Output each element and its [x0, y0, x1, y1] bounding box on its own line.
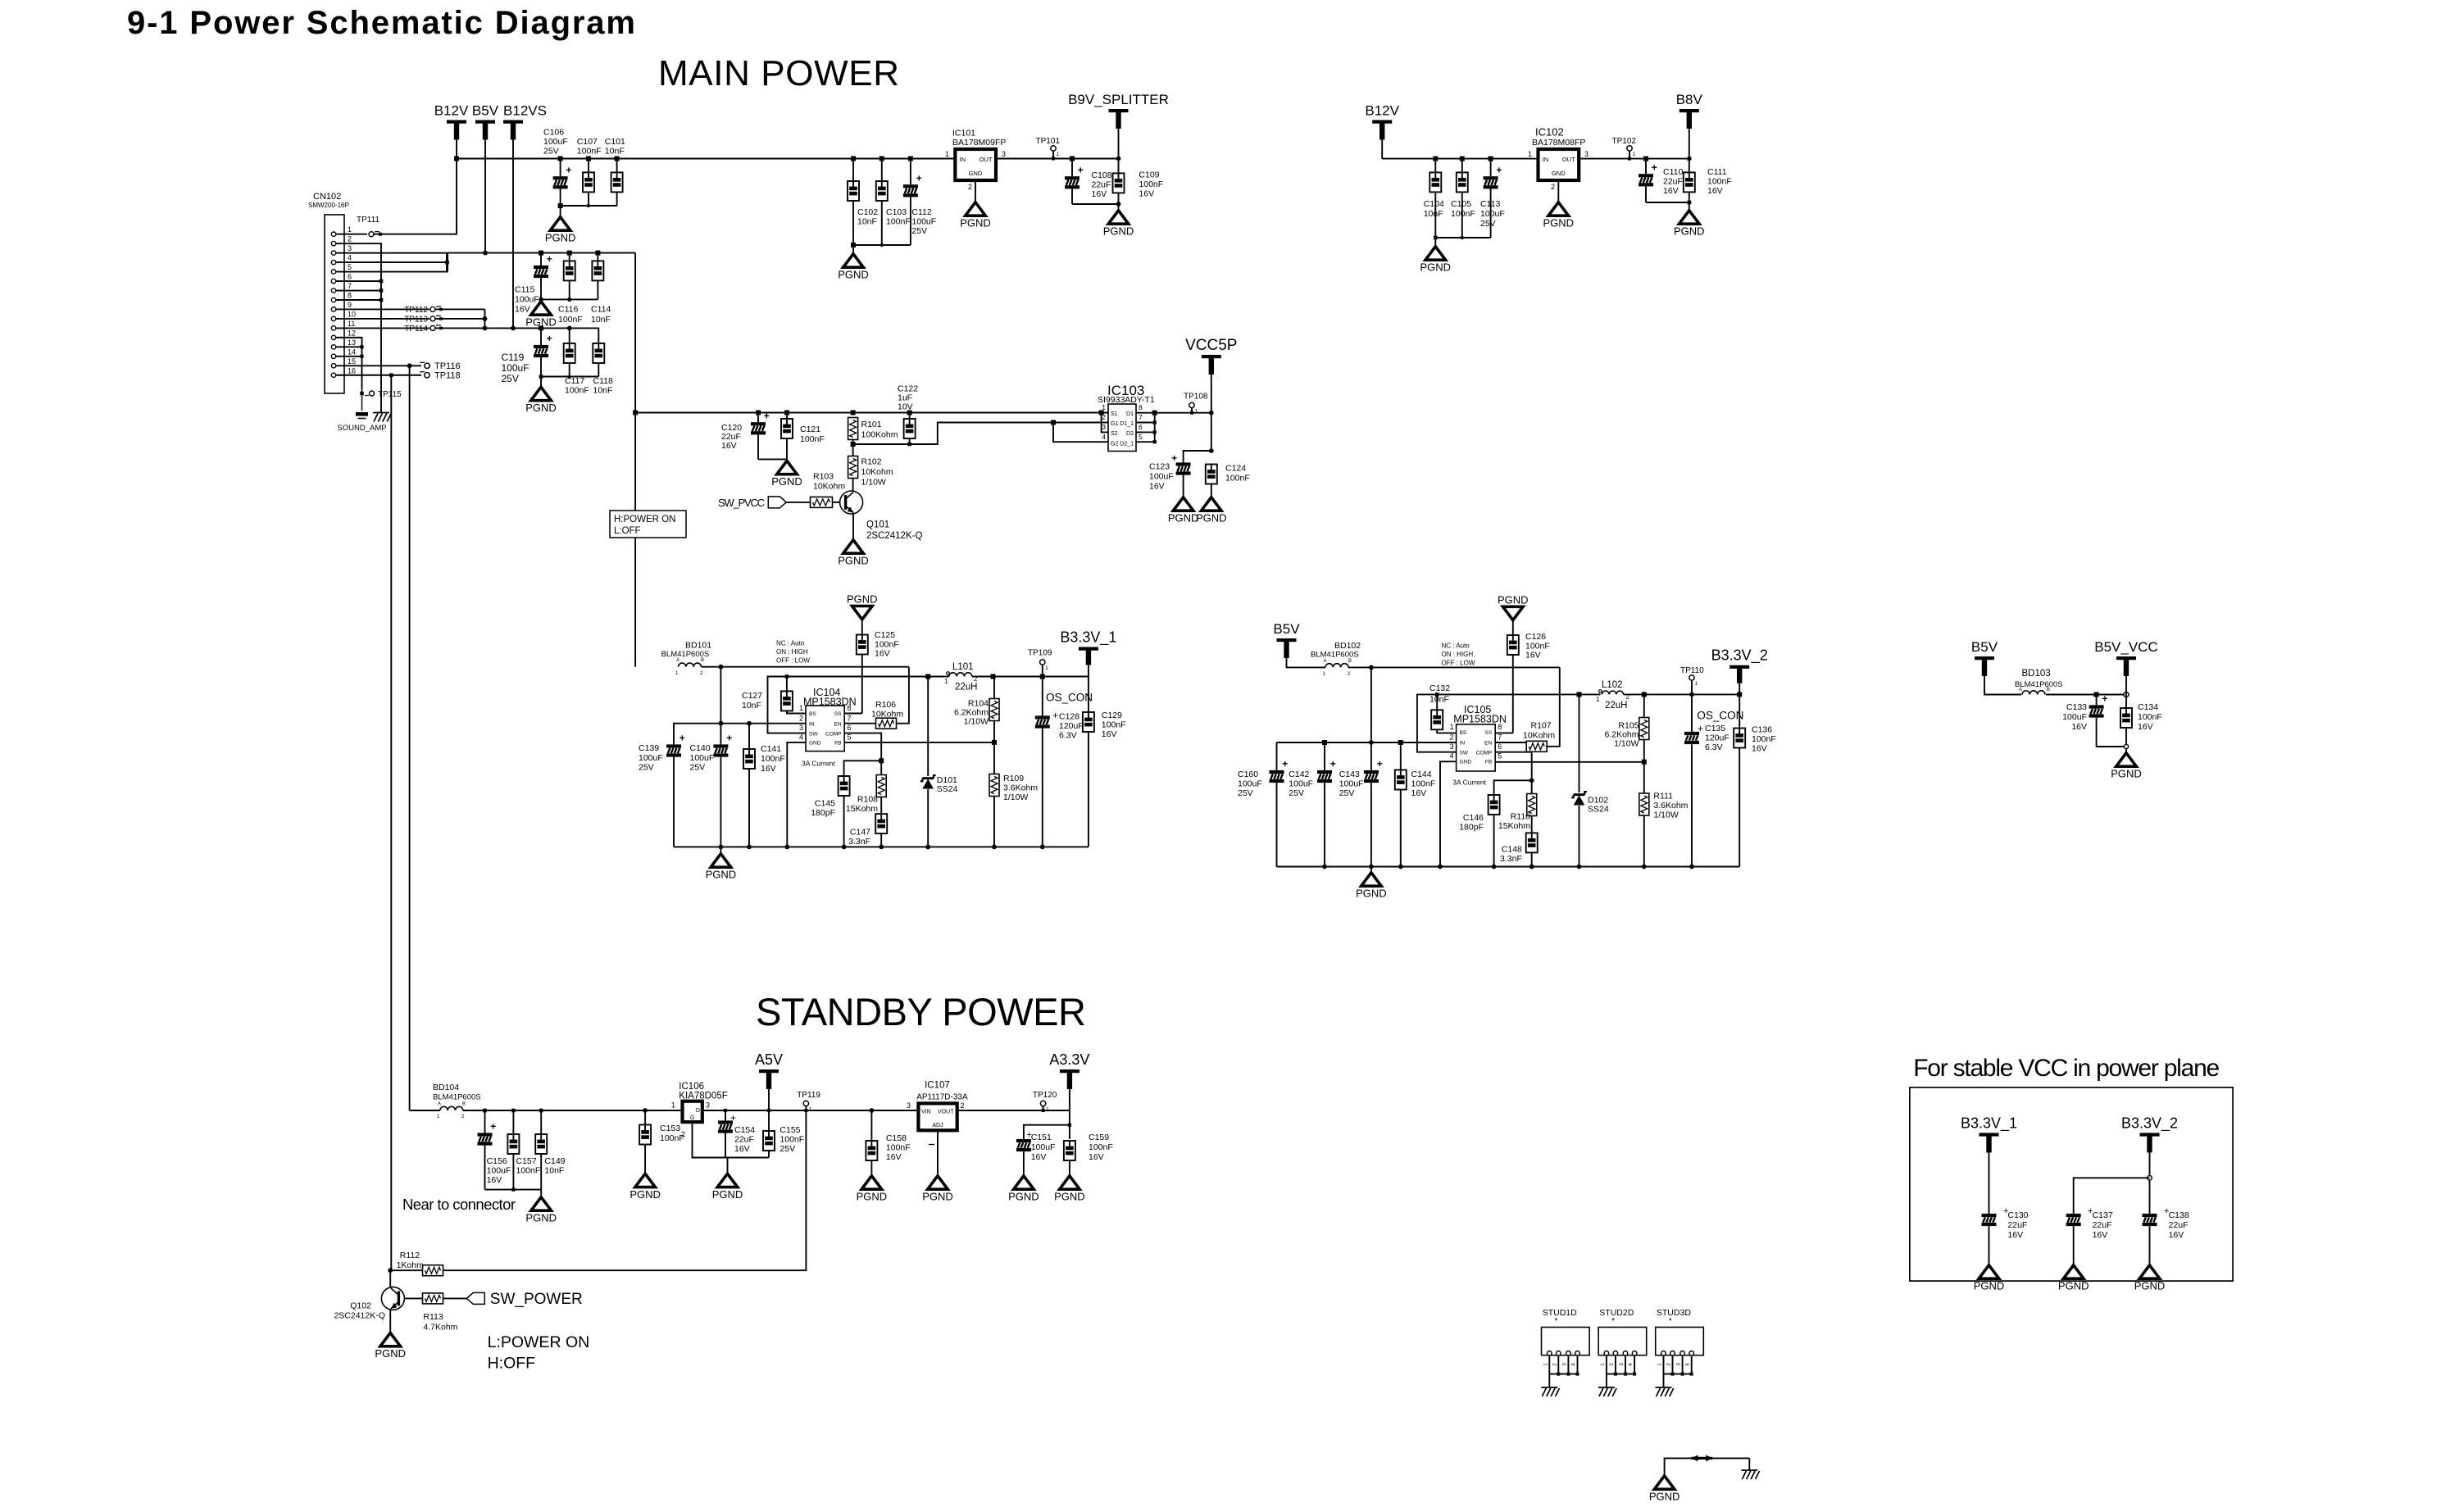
svg-text:25V: 25V [639, 763, 654, 773]
wire C106 pgnd stem [560, 206, 561, 216]
svg-text:16V: 16V [1092, 189, 1107, 199]
svg-text:100Kohm: 100Kohm [861, 430, 898, 440]
junction C144 top [1398, 740, 1403, 745]
ground PGND under C121 [771, 461, 802, 488]
wire C112 stems [910, 159, 911, 185]
svg-text:+: + [1052, 710, 1058, 721]
ground PGND under C124 [1196, 497, 1227, 524]
ferrite bead BD101 [679, 663, 702, 667]
svg-text:25V: 25V [543, 147, 559, 157]
svg-text:C103: C103 [886, 207, 907, 217]
svg-text:16V: 16V [515, 305, 530, 315]
svg-text:C108: C108 [1092, 170, 1112, 180]
svg-text:TP118: TP118 [434, 370, 461, 380]
junction box split [2148, 1176, 2152, 1181]
svg-text:B3.3V_1: B3.3V_1 [1961, 1115, 2017, 1132]
wire COMP net 105 [1495, 752, 1532, 781]
junction C158 top [870, 1108, 875, 1113]
capacitor C104 [1429, 172, 1441, 192]
wire B8V stem [1689, 129, 1690, 159]
svg-text:16V: 16V [1663, 186, 1679, 196]
wire pin9 TP112 [336, 308, 430, 310]
svg-text:+: + [1698, 723, 1703, 734]
svg-text:PGND: PGND [1974, 1280, 2005, 1292]
capacitor C160 [1270, 758, 1289, 783]
svg-text:A5V: A5V [755, 1051, 783, 1068]
svg-text:2: 2 [799, 715, 803, 723]
svg-text:22uF: 22uF [2169, 1220, 2189, 1230]
svg-text:C151: C151 [1031, 1133, 1052, 1142]
svg-text:C141: C141 [761, 744, 781, 754]
svg-text:25V: 25V [911, 226, 927, 236]
svg-text:PGND: PGND [1674, 225, 1705, 238]
svg-text:25V: 25V [1480, 219, 1496, 229]
junction C110 top [1643, 157, 1648, 161]
svg-text:1: 1 [944, 678, 948, 685]
svg-text:OS_CON: OS_CON [1697, 710, 1743, 722]
svg-text:100nF: 100nF [1089, 1142, 1113, 1152]
svg-text:3.3nF: 3.3nF [1500, 854, 1522, 864]
junction C114 top [595, 251, 600, 256]
wire S2 feed [1102, 413, 1108, 433]
svg-text:2: 2 [681, 1130, 685, 1138]
ground PGND under C102 [838, 254, 869, 281]
wire IN bus 105 [1277, 742, 1457, 743]
svg-text:5: 5 [1139, 433, 1143, 441]
junction C112 top [908, 157, 913, 161]
power symbol B5V_VCC [2094, 639, 2157, 676]
wire C122 stems [909, 413, 911, 420]
svg-text:25V: 25V [780, 1144, 795, 1154]
resistor R104 [989, 699, 999, 721]
wire R113 to flag [443, 1297, 467, 1299]
wire R106 to IN rail [896, 667, 909, 724]
svg-text:4: 4 [348, 254, 352, 262]
power symbol B8V [1676, 92, 1703, 129]
ground PGND under C149 [525, 1197, 557, 1224]
svg-text:C107: C107 [577, 137, 598, 147]
wire Q102 collector [389, 1270, 391, 1310]
wire R110 stems [1531, 780, 1533, 793]
svg-text:1/10W: 1/10W [1003, 792, 1028, 802]
svg-text:A: A [1324, 659, 1327, 664]
svg-text:TP119: TP119 [797, 1091, 820, 1100]
svg-text:100uF: 100uF [639, 753, 663, 763]
wire gate net [853, 423, 1108, 445]
svg-text:C111: C111 [1707, 167, 1727, 177]
wire EN stub [844, 723, 876, 724]
svg-text:PGND: PGND [838, 269, 869, 281]
wire C130 bottom [1989, 1226, 1990, 1264]
capacitor C146 [1489, 795, 1500, 815]
svg-text:R101: R101 [861, 420, 882, 429]
svg-text:+: + [2102, 693, 2107, 705]
svg-text:PGND: PGND [630, 1188, 661, 1201]
svg-text:16V: 16V [2071, 722, 2087, 732]
wire B3.3V_2 box stem [2149, 1152, 2151, 1214]
svg-text:16V: 16V [721, 441, 737, 451]
svg-text:D1: D1 [1126, 411, 1134, 417]
svg-text:VIN: VIN [921, 1110, 931, 1115]
wire C109 stems [1118, 159, 1120, 174]
wire C144 stems [1400, 742, 1402, 770]
svg-text:OUT: OUT [1562, 156, 1575, 163]
wire C147 bottom [880, 833, 882, 847]
svg-text:D2_1: D2_1 [1120, 442, 1134, 447]
svg-text:TP115: TP115 [378, 390, 402, 399]
wire C105 stems [1461, 159, 1463, 173]
junction C151 split [1068, 1124, 1071, 1127]
wire L102 out [1624, 693, 1740, 695]
junction A5V node [767, 1109, 770, 1112]
regulator IC102 [1539, 149, 1579, 180]
wire C102 group bottom bus [853, 244, 911, 246]
resistor R113 [423, 1293, 443, 1304]
svg-text:+: + [1496, 164, 1502, 175]
wire B12V bus [457, 158, 955, 160]
svg-text:100nF: 100nF [800, 434, 825, 444]
capacitor C139 [666, 733, 685, 757]
testpoint TP120 [1040, 1101, 1049, 1112]
wire Q102 base [404, 1297, 423, 1299]
junction C108 top [1070, 157, 1075, 161]
capacitor C123 [1171, 452, 1191, 475]
capacitor C140 [713, 733, 732, 757]
junction B3.3V_2 node [1737, 692, 1742, 697]
svg-text:C154: C154 [734, 1125, 755, 1135]
svg-text:10Kohm: 10Kohm [871, 710, 903, 720]
svg-text:PGND: PGND [1543, 217, 1575, 229]
wire C110 bottom [1645, 186, 1647, 202]
svg-text:16V: 16V [761, 764, 776, 774]
svg-text:PGND: PGND [712, 1188, 743, 1201]
junction C115 top [539, 251, 543, 256]
svg-text:10V: 10V [898, 402, 913, 412]
svg-text:11: 11 [348, 320, 355, 328]
wire B5V to BD103 [1984, 676, 2021, 695]
svg-text:1: 1 [1528, 150, 1532, 158]
junction L102 out [1642, 692, 1647, 697]
testpoint TP101 [1051, 146, 1060, 157]
svg-text:B8V: B8V [1676, 92, 1703, 107]
svg-text:10nF: 10nF [857, 217, 877, 227]
wire IC106 gnd [693, 1122, 728, 1157]
wire pin11 TP114 [336, 327, 430, 329]
svg-text:100uF: 100uF [1238, 779, 1262, 789]
svg-text:PGND: PGND [960, 217, 991, 229]
svg-text:12: 12 [348, 329, 356, 337]
svg-text:+: + [764, 410, 770, 421]
wire R108 stems [880, 761, 882, 774]
wire C156 bottom [484, 1146, 486, 1190]
svg-text:B5V_VCC: B5V_VCC [2094, 639, 2157, 655]
ground chassis STUD1D [1541, 1387, 1559, 1396]
svg-text:16V: 16V [886, 1152, 902, 1162]
junction BD104 out [483, 1109, 487, 1113]
svg-text:1: 1 [671, 1101, 675, 1110]
svg-text:+: + [547, 253, 552, 265]
wire B5V bus row [448, 252, 636, 254]
svg-text:6: 6 [848, 724, 852, 732]
wire C159 bottom [1069, 1160, 1070, 1174]
svg-text:100nF: 100nF [886, 1143, 911, 1153]
resistor R109 [989, 774, 999, 797]
wire C137 branch [2074, 1178, 2150, 1214]
svg-text:180pF: 180pF [1459, 823, 1484, 833]
svg-text:7: 7 [848, 715, 852, 723]
wire pin10 TP113 [336, 318, 430, 320]
svg-text:8: 8 [848, 704, 852, 712]
svg-text:3: 3 [799, 724, 803, 732]
wire D1 output [1136, 412, 1211, 414]
svg-text:1/10W: 1/10W [1653, 810, 1678, 820]
capacitor C103 [876, 181, 888, 201]
junction D pins tie [1152, 411, 1157, 415]
capacitor C112 [903, 172, 922, 197]
svg-text:BD104: BD104 [433, 1083, 459, 1092]
capacitor C110 [1639, 161, 1657, 186]
junction C120 top [756, 411, 761, 415]
capacitor C147 [875, 814, 887, 833]
junction C141 top [747, 721, 752, 726]
svg-text:PGND: PGND [1649, 1491, 1680, 1503]
wire R101 bottom [852, 440, 854, 456]
svg-text:PGND: PGND [1356, 888, 1387, 900]
svg-text:C143: C143 [1339, 770, 1360, 779]
wire C104 pgnd stem [1434, 238, 1436, 245]
svg-text:TP108: TP108 [1184, 393, 1208, 402]
svg-text:G1: G1 [1111, 421, 1118, 427]
svg-text:C104: C104 [1424, 199, 1444, 209]
svg-text:100uF: 100uF [543, 137, 568, 147]
svg-text:22uH: 22uH [1605, 701, 1628, 711]
resistor R112 [423, 1265, 443, 1276]
regulator IC101 [955, 149, 996, 180]
wire C148 bottom [1531, 852, 1533, 866]
wire C143 bottom [1370, 783, 1372, 866]
junction IN node 105 [1369, 740, 1374, 745]
svg-text:+: + [1330, 758, 1336, 770]
svg-text:C110: C110 [1663, 167, 1683, 177]
svg-text:C136: C136 [1752, 725, 1772, 735]
junction IN node [719, 721, 724, 726]
svg-text:5: 5 [848, 733, 852, 742]
svg-text:1: 1 [1195, 409, 1198, 415]
wire cap group bottom bus [561, 205, 617, 207]
svg-text:+: + [730, 1112, 736, 1124]
capacitor C129 [1083, 712, 1094, 732]
svg-text:+: + [490, 1121, 496, 1133]
ground PGND under C111 [1674, 211, 1705, 238]
wire pin3 B5V bus [336, 252, 448, 254]
svg-text:SI9933ADY-T1: SI9933ADY-T1 [1098, 395, 1155, 405]
ground PGND under IC107 [922, 1176, 953, 1203]
svg-text:C159: C159 [1089, 1133, 1109, 1142]
wire C149 stems [540, 1110, 542, 1134]
capacitor C127 [781, 691, 793, 711]
svg-text:BLM41P600S: BLM41P600S [1311, 651, 1359, 660]
svg-text:B12V: B12V [434, 103, 469, 119]
svg-text:+: + [547, 333, 552, 344]
wire C154 bottom [725, 1133, 726, 1158]
svg-text:C160: C160 [1238, 770, 1258, 779]
note power-on box [610, 511, 686, 538]
svg-text:16V: 16V [1707, 186, 1723, 196]
svg-text:D1_1: D1_1 [1120, 421, 1134, 427]
ground chassis STUD3D [1656, 1387, 1674, 1396]
svg-text:C118: C118 [593, 376, 613, 386]
wire C104 stems [1434, 159, 1436, 173]
svg-text:3.6Kohm: 3.6Kohm [1653, 801, 1688, 810]
svg-text:16V: 16V [1411, 788, 1427, 798]
transistor Q102 [381, 1287, 404, 1310]
svg-text:5: 5 [348, 263, 352, 271]
ground PGND under C158 [857, 1176, 888, 1203]
wire C160 bottom [1276, 783, 1278, 866]
power symbol B3.3V_1 box [1961, 1115, 2017, 1152]
wire IC101 gnd stem [975, 180, 976, 201]
svg-text:L:POWER ON: L:POWER ON [488, 1333, 590, 1351]
wire C106 bottom [560, 188, 561, 206]
junction C119 top [539, 325, 543, 330]
capacitor C118 [593, 343, 604, 363]
svg-text:PGND: PGND [1054, 1191, 1085, 1203]
svg-text:2: 2 [1551, 183, 1555, 191]
svg-text:PGND: PGND [922, 1191, 953, 1203]
svg-text:C139: C139 [639, 743, 659, 753]
junction C116 top [567, 251, 572, 256]
wire C146 branch [1494, 780, 1532, 795]
svg-text:3: 3 [1584, 150, 1589, 158]
capacitor C145 [839, 776, 850, 796]
svg-text:B3.3V_2: B3.3V_2 [1711, 647, 1768, 665]
svg-text:1/10W: 1/10W [964, 717, 989, 727]
svg-text:22uF: 22uF [1092, 180, 1111, 190]
wire C119 pgnd stem [540, 377, 542, 386]
svg-text:7: 7 [1498, 733, 1502, 742]
svg-text:120uF: 120uF [1059, 721, 1084, 731]
wire C121 stems [786, 413, 788, 420]
ground chassis bottom link [1741, 1470, 1759, 1479]
svg-text:SW: SW [809, 731, 818, 737]
ground PGND under Q101 [838, 540, 869, 567]
mosfet IC103 [1108, 404, 1136, 452]
junction C106 bottom [558, 203, 563, 208]
junction R112 node [388, 1268, 393, 1273]
wire C107 stems [588, 159, 589, 173]
wire IC107 out [957, 1110, 1070, 1111]
svg-text:SW: SW [1460, 750, 1469, 756]
svg-text:OFF : LOW: OFF : LOW [776, 657, 810, 665]
svg-text:C102: C102 [857, 207, 878, 217]
svg-text:TP113: TP113 [404, 315, 428, 324]
svg-text:IN: IN [809, 722, 815, 728]
ground PGND under IC102 [1543, 202, 1575, 229]
svg-text:C147: C147 [850, 828, 870, 838]
junction D102 top [1577, 692, 1582, 697]
resistor R108 [876, 775, 886, 797]
svg-text:16: 16 [348, 366, 356, 375]
svg-text:IN: IN [1460, 741, 1466, 747]
svg-text:100nF: 100nF [1525, 641, 1550, 651]
svg-text:6: 6 [1498, 742, 1502, 751]
svg-text:TP120: TP120 [1033, 1091, 1057, 1100]
power symbol VCC5P [1185, 337, 1237, 375]
svg-text:15: 15 [348, 357, 356, 366]
svg-text:PGND: PGND [1196, 512, 1227, 524]
wire pin1 to TP111 [336, 234, 367, 235]
svg-text:10nF: 10nF [605, 147, 625, 157]
svg-text:OS_CON: OS_CON [1046, 692, 1093, 704]
svg-text:SS24: SS24 [1588, 805, 1609, 815]
junction C111 bottom [1687, 200, 1692, 205]
svg-text:C129: C129 [1102, 711, 1122, 720]
wire C119 bottom [540, 357, 542, 377]
svg-text:BLM41P600S: BLM41P600S [433, 1093, 481, 1102]
wire C115 bottom [540, 278, 542, 299]
wire C146 bottom [1493, 815, 1495, 867]
testpoint TP115 [360, 392, 364, 396]
svg-text:C149: C149 [544, 1156, 565, 1166]
svg-text:L:OFF: L:OFF [614, 526, 641, 536]
connector CN102 box [325, 215, 344, 393]
junction C121 top [784, 411, 789, 415]
svg-text:+: + [1171, 452, 1177, 464]
svg-text:C112: C112 [911, 207, 931, 217]
svg-text:10Kohm: 10Kohm [861, 467, 893, 477]
capacitor C154 [718, 1120, 733, 1133]
junction C132-SW [1435, 692, 1439, 697]
svg-text:B12V: B12V [1365, 103, 1399, 119]
svg-text:16V: 16V [1089, 1152, 1104, 1162]
regulator IC106 [683, 1101, 702, 1122]
ground PGND under C159 [1054, 1176, 1085, 1203]
svg-text:2: 2 [348, 235, 352, 243]
svg-text:PGND: PGND [525, 402, 557, 414]
svg-text:25V: 25V [1289, 788, 1304, 798]
wire C108 stem [1071, 159, 1073, 177]
testpoint TP102 [1627, 146, 1636, 157]
svg-text:BS: BS [1460, 730, 1467, 736]
wire C135 stem [1691, 694, 1693, 732]
wire C154 stem [725, 1110, 726, 1120]
svg-text:TP112: TP112 [404, 306, 428, 315]
svg-text:C142: C142 [1289, 770, 1309, 779]
ground chassis pin2 [373, 413, 391, 422]
wire C140 bottom [720, 757, 721, 847]
regulator IC107 [918, 1103, 957, 1130]
svg-text:C148: C148 [1502, 845, 1522, 855]
wire R107 to B5V rail [1546, 667, 1560, 746]
svg-text:3: 3 [1002, 150, 1006, 158]
svg-text:100nF: 100nF [577, 147, 602, 157]
svg-text:C126: C126 [1525, 632, 1546, 642]
capacitor C122 [904, 419, 916, 438]
svg-text:16V: 16V [2138, 722, 2153, 732]
svg-text:10Kohm: 10Kohm [813, 482, 845, 492]
wire EN stub 105 [1495, 742, 1527, 743]
ferrite bead BD104 [440, 1106, 463, 1110]
power symbol B3.3V_2 [1711, 647, 1768, 683]
capacitor C148 [1526, 833, 1538, 852]
svg-text:A: A [438, 1102, 441, 1107]
svg-text:GND: GND [1460, 760, 1472, 765]
svg-text:OUT: OUT [980, 156, 993, 163]
svg-text:1: 1 [1633, 152, 1636, 157]
wire pin8 stub [336, 299, 381, 301]
svg-text:C132: C132 [1429, 683, 1450, 693]
wire C102 pgnd stem [852, 245, 854, 252]
